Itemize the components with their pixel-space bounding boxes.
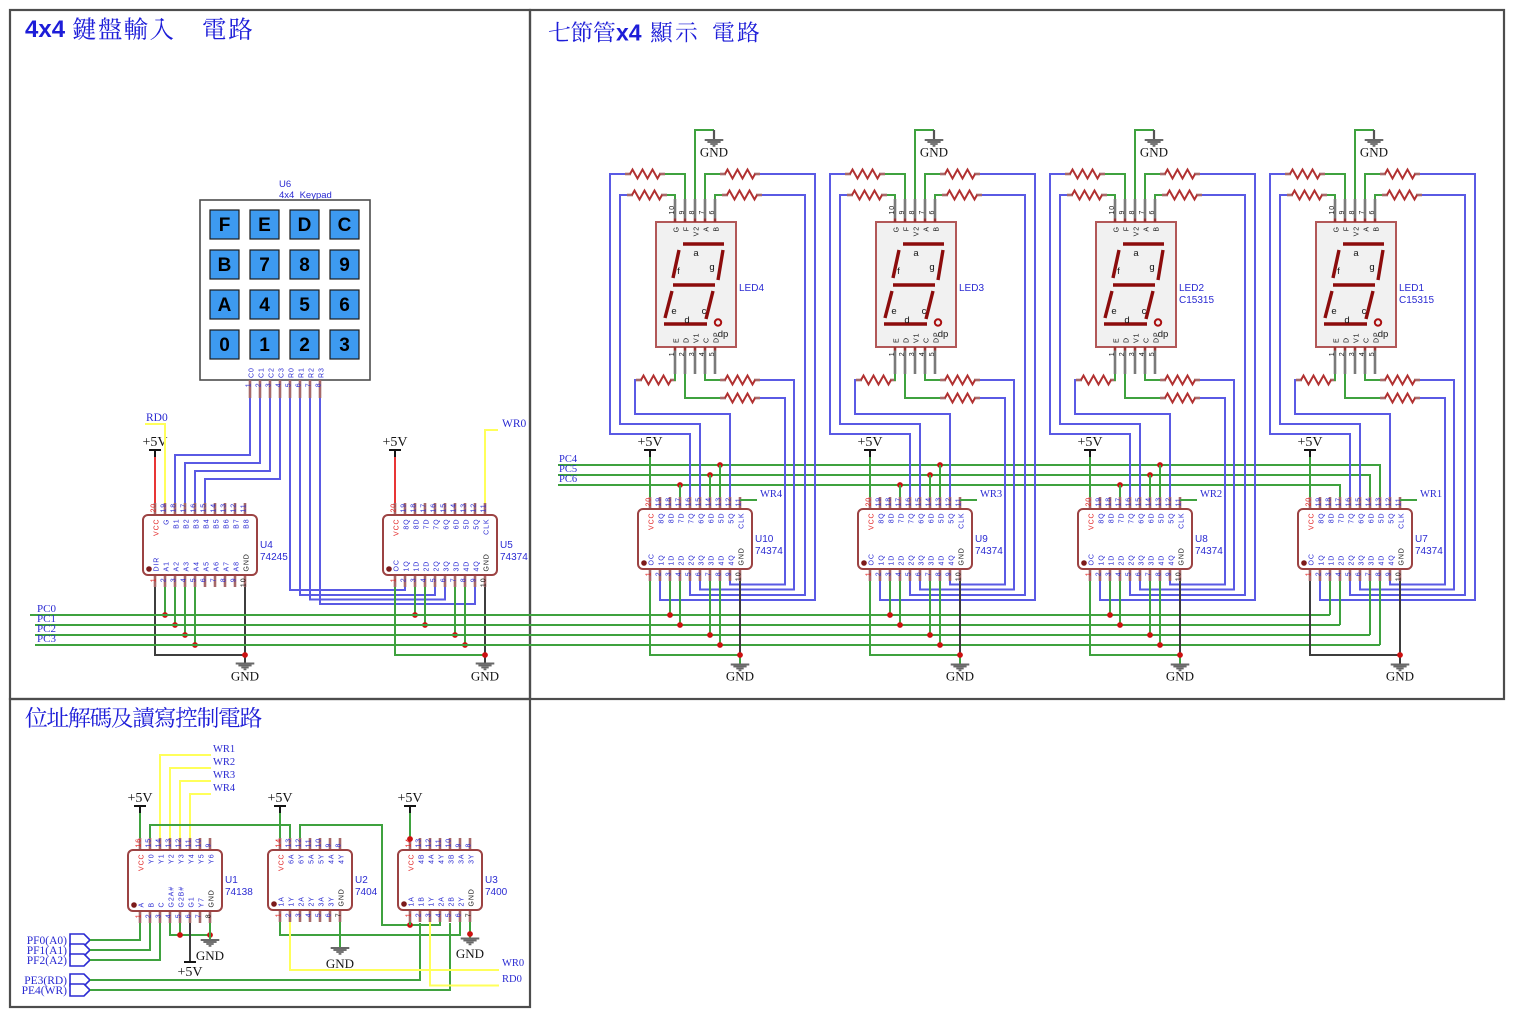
wire RD0 to U4 pin19 G	[145, 424, 165, 503]
svg-text:7: 7	[1366, 572, 1373, 577]
wire U7 5Q to R segE	[1295, 380, 1390, 497]
wire U10 5D to PC4	[719, 465, 721, 497]
node junction U8-7D/PC6	[1117, 482, 1123, 488]
svg-text:7: 7	[926, 572, 933, 577]
svg-text:17: 17	[676, 497, 683, 507]
wire U9 6D to PC5	[929, 475, 931, 497]
wire U8 3Q to R segC	[1140, 380, 1234, 590]
svg-text:1D: 1D	[1109, 555, 1116, 566]
svg-text:1: 1	[406, 913, 413, 918]
svg-text:f: f	[897, 266, 900, 277]
svg-text:U8: U8	[1195, 534, 1208, 545]
node junction U3 VCC	[407, 836, 413, 842]
svg-text:5: 5	[686, 572, 693, 577]
svg-text:10: 10	[1396, 572, 1403, 582]
svg-text:2Q: 2Q	[1129, 554, 1136, 565]
svg-text:1: 1	[246, 383, 253, 388]
svg-text:B1: B1	[174, 519, 181, 529]
svg-text:+5V: +5V	[382, 435, 407, 450]
svg-text:U6: U6	[279, 179, 291, 190]
svg-text:GND: GND	[231, 669, 259, 684]
svg-text:13: 13	[416, 838, 423, 848]
svg-text:U2: U2	[355, 875, 368, 886]
svg-text:14: 14	[1146, 497, 1153, 507]
node junction U9 ground	[957, 652, 963, 658]
svg-text:V1: V1	[1134, 333, 1141, 343]
ground above LED2	[1140, 140, 1168, 160]
svg-text:e: e	[1111, 306, 1116, 317]
svg-text:D: D	[298, 215, 312, 236]
svg-text:8: 8	[689, 210, 696, 215]
frame: keypad section box	[10, 10, 530, 699]
svg-text:G: G	[1334, 226, 1341, 232]
svg-text:A: A	[139, 902, 146, 908]
svg-text:7: 7	[1146, 572, 1153, 577]
svg-text:11: 11	[241, 503, 248, 512]
svg-text:16: 16	[191, 503, 198, 513]
svg-text:c: c	[922, 306, 927, 317]
7-segment display LED1	[1316, 222, 1396, 347]
svg-text:11: 11	[956, 497, 963, 506]
ground below U2	[326, 948, 354, 971]
svg-text:8Q: 8Q	[659, 513, 666, 524]
IC U2 7404	[268, 838, 378, 922]
wire LED4 F resistor to pin F	[665, 174, 685, 199]
wire U10 7Q to R segF	[610, 174, 690, 497]
power +5V for U10	[637, 435, 662, 497]
node junction U3 ground	[467, 931, 473, 937]
svg-text:1: 1	[669, 352, 676, 357]
ground stub LED1	[1373, 130, 1375, 140]
svg-text:5Q: 5Q	[729, 513, 736, 524]
svg-text:14: 14	[211, 503, 218, 513]
svg-text:GND: GND	[1386, 669, 1414, 684]
svg-text:7404: 7404	[355, 887, 378, 898]
svg-text:3A: 3A	[459, 854, 466, 864]
svg-text:14: 14	[1366, 497, 1373, 507]
LED4 segment middle	[673, 283, 715, 286]
svg-text:B4: B4	[204, 519, 211, 529]
svg-text:VCC: VCC	[139, 854, 146, 871]
svg-text:17: 17	[896, 497, 903, 507]
svg-text:7: 7	[1139, 210, 1146, 215]
svg-text:8: 8	[1156, 572, 1163, 577]
svg-text:7: 7	[306, 383, 313, 388]
LED1 segment d	[1324, 322, 1367, 325]
LED4 segment d	[664, 322, 707, 325]
wire U5 3D to PC2	[454, 587, 456, 635]
svg-text:C1: C1	[259, 367, 266, 378]
svg-text:GND: GND	[726, 669, 754, 684]
wire LED3 F resistor to pin F	[885, 174, 905, 199]
svg-text:6: 6	[339, 295, 350, 316]
resistor R LED3 seg A	[940, 170, 980, 179]
resistor R LED2 seg E	[1076, 376, 1116, 385]
svg-text:10: 10	[241, 578, 248, 588]
svg-text:6Q: 6Q	[444, 519, 451, 530]
wire U8 4D to PC3	[1159, 581, 1161, 645]
resistor R LED2 seg C	[1160, 376, 1200, 385]
svg-text:18: 18	[411, 503, 418, 513]
svg-text:1Q: 1Q	[879, 554, 886, 565]
LED2 segment g (upper right)	[1158, 250, 1163, 280]
svg-text:A: A	[924, 226, 931, 232]
LED4 segment a	[683, 242, 724, 245]
power +5V below U1 G1	[177, 923, 202, 980]
svg-text:d: d	[904, 315, 909, 326]
wire U3 GND pin down	[469, 922, 471, 938]
svg-text:GND: GND	[700, 145, 728, 160]
svg-text:C3: C3	[279, 367, 286, 378]
svg-text:V2: V2	[1134, 226, 1141, 236]
svg-text:17: 17	[181, 503, 188, 513]
resistor R LED2 seg G	[1067, 191, 1107, 200]
svg-text:10: 10	[1329, 205, 1336, 215]
svg-text:7: 7	[466, 913, 473, 918]
svg-text:A4: A4	[194, 561, 201, 571]
svg-text:2Q: 2Q	[434, 560, 441, 571]
wire U9 7Q to R segF	[830, 174, 910, 497]
wire U7 1Q to R segA	[1320, 174, 1475, 600]
wire U7 CLK to WR1	[1400, 499, 1417, 501]
IC U8 74374	[1078, 497, 1223, 581]
wire U9 4D to PC3	[939, 581, 941, 645]
svg-text:6: 6	[326, 913, 333, 918]
svg-text:DP: DP	[934, 331, 941, 343]
svg-text:12: 12	[726, 497, 733, 507]
wire U10 OC to ground	[650, 581, 740, 655]
node junction U8-4D/PC3	[1157, 642, 1163, 648]
wire U1 Y0 to U2 6A	[150, 825, 290, 838]
svg-text:1Q: 1Q	[404, 560, 411, 571]
ground below U10	[726, 665, 754, 684]
svg-text:74374: 74374	[500, 552, 528, 563]
svg-text:PC6: PC6	[559, 474, 577, 485]
svg-text:4: 4	[181, 578, 188, 583]
connector PF1(A1)	[27, 944, 90, 957]
wire LED3 D pin to resistor	[905, 374, 940, 398]
LED4 decimal point dp	[715, 319, 721, 325]
node junction U9-7D/PC6	[897, 482, 903, 488]
wire U10 3Q to R segC	[700, 380, 794, 590]
svg-text:g: g	[1149, 262, 1154, 273]
wire U8 4Q to R segD	[1170, 398, 1225, 585]
svg-text:5: 5	[299, 295, 310, 316]
svg-text:3: 3	[426, 913, 433, 918]
LED4 segment e	[665, 291, 672, 318]
svg-text:B: B	[934, 226, 941, 232]
wire LED1 F resistor to pin F	[1325, 174, 1345, 199]
LED1 segment f	[1333, 250, 1339, 278]
svg-text:V2: V2	[694, 226, 701, 236]
node junction U4-A3/PC2	[182, 632, 188, 638]
svg-text:F: F	[684, 226, 691, 231]
wire U8 5Q to R segE	[1075, 380, 1170, 497]
svg-text:5: 5	[929, 352, 936, 357]
svg-text:4: 4	[699, 352, 706, 357]
svg-text:c: c	[702, 306, 707, 317]
svg-text:6: 6	[916, 572, 923, 577]
node junction U10-4D/PC3	[717, 642, 723, 648]
svg-text:GND: GND	[244, 553, 251, 571]
7-segment display LED4	[656, 222, 736, 347]
svg-text:4Y: 4Y	[339, 854, 346, 864]
IC U10 74374	[638, 497, 783, 581]
svg-text:18: 18	[886, 497, 893, 507]
svg-text:1D: 1D	[1329, 555, 1336, 566]
svg-text:12: 12	[1386, 497, 1393, 507]
svg-text:2A: 2A	[299, 896, 306, 906]
svg-text:7: 7	[211, 578, 218, 583]
resistor R LED1 seg A	[1380, 170, 1420, 179]
svg-text:Y2: Y2	[169, 854, 176, 864]
wire U4 A2 to PC1	[174, 587, 176, 625]
svg-text:8: 8	[716, 572, 723, 577]
svg-text:WR4: WR4	[760, 489, 783, 500]
svg-text:4Q: 4Q	[1169, 554, 1176, 565]
ground below U9	[946, 665, 974, 684]
svg-text:18: 18	[1106, 497, 1113, 507]
svg-text:0: 0	[219, 335, 230, 356]
wire WR0 to U5 pin11 CLK	[485, 430, 498, 503]
svg-text:d: d	[1344, 315, 1349, 326]
svg-text:12: 12	[231, 503, 238, 513]
svg-text:1: 1	[259, 335, 270, 356]
wire U7 OC to ground	[1310, 581, 1400, 655]
svg-text:Y3: Y3	[179, 854, 186, 864]
svg-text:R3: R3	[319, 367, 326, 378]
svg-text:1: 1	[1086, 572, 1093, 577]
wire U8 3D to PC2	[1149, 581, 1151, 635]
svg-text:4: 4	[919, 352, 926, 357]
wire U8 2Q to R segB	[1130, 195, 1245, 595]
LED3 segment e	[885, 291, 892, 318]
wire U10 2Q to R segB	[690, 195, 805, 595]
svg-text:R0: R0	[289, 367, 296, 378]
svg-text:5: 5	[176, 914, 183, 919]
wire PE4(WR) to U3 2B	[90, 923, 450, 990]
wire U9 GND pin down	[959, 581, 961, 655]
wire LED2 D pin to resistor	[1125, 374, 1160, 398]
wire U5 2D to PC1	[424, 587, 426, 625]
LED3 segment f	[893, 250, 899, 278]
svg-text:CLK: CLK	[739, 513, 746, 529]
svg-text:16: 16	[431, 503, 438, 513]
resistor R LED1 seg B	[1382, 191, 1422, 200]
svg-text:C: C	[704, 337, 711, 343]
wire LED1 A pin to resistor	[1365, 174, 1380, 199]
resistor R LED2 seg D	[1160, 394, 1200, 403]
svg-text:3D: 3D	[1149, 555, 1156, 566]
resistor R LED4 seg F	[625, 170, 665, 179]
svg-text:6D: 6D	[709, 513, 716, 524]
wire U7 2D to PC1	[1339, 581, 1341, 625]
svg-text:A2: A2	[174, 561, 181, 571]
svg-text:74245: 74245	[260, 552, 288, 563]
wire LED3 C pin to resistor	[925, 374, 940, 380]
svg-text:8D: 8D	[1109, 513, 1116, 524]
svg-text:C: C	[924, 337, 931, 343]
wire LED2 C pin to resistor	[1145, 374, 1160, 380]
svg-text:7: 7	[259, 255, 270, 276]
svg-text:5D: 5D	[939, 513, 946, 524]
svg-text:G2A#: G2A#	[169, 886, 176, 908]
svg-text:OC: OC	[649, 553, 656, 565]
wire LED2 E resistor to pin E	[1115, 374, 1116, 380]
svg-text:VCC: VCC	[394, 519, 401, 536]
svg-text:20: 20	[646, 497, 653, 507]
svg-text:1: 1	[151, 578, 158, 583]
svg-text:4D: 4D	[464, 561, 471, 572]
wire U10 ground stub	[739, 655, 741, 665]
frame: display section box	[530, 10, 1504, 699]
wire keypad C3 to U4 B4	[205, 398, 280, 503]
svg-text:A: A	[704, 226, 711, 232]
LED2 decimal point dp	[1155, 319, 1161, 325]
wire U8 5D to PC4	[1159, 465, 1161, 497]
resistor R LED3 seg G	[847, 191, 887, 200]
wire U8 OC to ground	[1090, 581, 1180, 655]
wire U8 7Q to R segF	[1050, 174, 1130, 497]
svg-text:Y0: Y0	[149, 854, 156, 864]
svg-text:U7: U7	[1415, 534, 1428, 545]
svg-text:13: 13	[1156, 497, 1163, 507]
svg-text:4A: 4A	[429, 854, 436, 864]
LED2 segment middle	[1113, 283, 1155, 286]
node junction U8-6D/PC5	[1147, 472, 1153, 478]
svg-text:f: f	[677, 266, 680, 277]
svg-text:4D: 4D	[1159, 555, 1166, 566]
svg-text:7Q: 7Q	[909, 513, 916, 524]
node junction U9-3D/PC2	[927, 632, 933, 638]
svg-text:A3: A3	[184, 561, 191, 571]
svg-text:5: 5	[906, 572, 913, 577]
svg-text:11: 11	[481, 503, 488, 512]
svg-text:f: f	[1337, 266, 1340, 277]
svg-text:8: 8	[299, 255, 310, 276]
power +5V for U5	[382, 435, 407, 503]
svg-text:C: C	[1364, 337, 1371, 343]
IC U3 7400	[398, 838, 508, 922]
svg-text:12: 12	[426, 838, 433, 848]
wire U9 3Q to R segC	[920, 380, 1014, 590]
svg-text:3: 3	[411, 578, 418, 583]
wire U9 7D to PC6	[899, 485, 901, 497]
svg-text:20: 20	[1306, 497, 1313, 507]
svg-text:7D: 7D	[1339, 513, 1346, 524]
wire U10 4Q to R segD	[730, 398, 785, 585]
connector PF2(A2)	[27, 954, 90, 967]
power +5V for U2	[267, 791, 292, 838]
LED1 segment g (upper right)	[1378, 250, 1383, 280]
ground below U1	[196, 940, 224, 963]
svg-text:9: 9	[1386, 572, 1393, 577]
svg-text:V1: V1	[694, 333, 701, 343]
wire LED2 A pin to resistor	[1145, 174, 1160, 199]
svg-text:1Q: 1Q	[659, 554, 666, 565]
IC U7 74374	[1298, 497, 1443, 581]
svg-text:RD0: RD0	[146, 412, 168, 424]
svg-text:6A: 6A	[289, 854, 296, 864]
svg-text:3: 3	[296, 913, 303, 918]
svg-text:V1: V1	[914, 333, 921, 343]
svg-text:6D: 6D	[1369, 513, 1376, 524]
svg-text:B2: B2	[184, 519, 191, 529]
wire LED4 D pin to resistor	[685, 374, 720, 398]
wire PF2(A2) to U1 C	[90, 923, 160, 960]
svg-text:5A: 5A	[309, 854, 316, 864]
svg-text:a: a	[913, 248, 919, 259]
LED1 segment e	[1325, 291, 1332, 318]
svg-text:9: 9	[339, 255, 350, 276]
svg-text:17: 17	[1116, 497, 1123, 507]
ground stub LED3	[933, 130, 935, 140]
svg-text:2: 2	[256, 383, 263, 388]
wire LED3 A pin to resistor	[925, 174, 940, 199]
svg-text:C2: C2	[269, 367, 276, 378]
svg-text:8: 8	[1129, 210, 1136, 215]
ground below U3	[456, 939, 484, 962]
svg-text:2D: 2D	[899, 555, 906, 566]
7-segment display LED3	[876, 222, 956, 347]
svg-text:5: 5	[191, 578, 198, 583]
wire U1 G2B# to ground	[179, 923, 181, 935]
svg-text:4Y: 4Y	[439, 854, 446, 864]
wire LED4 E resistor to pin E	[675, 374, 676, 380]
svg-text:F: F	[1124, 226, 1131, 231]
svg-text:D: D	[904, 337, 911, 343]
svg-text:8: 8	[221, 578, 228, 583]
svg-text:4D: 4D	[1379, 555, 1386, 566]
wire U7 GND pin down	[1399, 581, 1401, 655]
wire LED3 G resistor to pin G	[887, 195, 895, 199]
LED3 pins	[889, 199, 941, 374]
svg-text:9: 9	[726, 572, 733, 577]
svg-text:8D: 8D	[889, 513, 896, 524]
svg-text:VCC: VCC	[1089, 513, 1096, 530]
svg-text:7D: 7D	[424, 519, 431, 530]
svg-text:15: 15	[201, 503, 208, 513]
svg-text:PE4(WR): PE4(WR)	[22, 985, 68, 997]
svg-text:8D: 8D	[1329, 513, 1336, 524]
svg-text:1: 1	[1329, 352, 1336, 357]
wire U9 OC to ground	[870, 581, 960, 655]
svg-text:5D: 5D	[1379, 513, 1386, 524]
wire U1 Y3 to WR3	[180, 781, 211, 838]
svg-text:7: 7	[1359, 210, 1366, 215]
svg-text:PF2(A2): PF2(A2)	[27, 955, 67, 967]
svg-text:18: 18	[171, 503, 178, 513]
LED1 segment a	[1343, 242, 1384, 245]
svg-text:GND: GND	[1140, 145, 1168, 160]
wire U10 1Q to R segA	[660, 174, 815, 600]
svg-text:74374: 74374	[1415, 546, 1443, 557]
frame: decoder section box	[10, 699, 530, 1007]
svg-text:12: 12	[946, 497, 953, 507]
svg-text:8: 8	[316, 383, 323, 388]
node junction U5-4D/PC3	[462, 642, 468, 648]
svg-text:U9: U9	[975, 534, 988, 545]
svg-text:3D: 3D	[454, 561, 461, 572]
wire U9 3D to PC2	[929, 581, 931, 635]
node junction U4-A1/PC0	[162, 612, 168, 618]
svg-text:U5: U5	[500, 540, 513, 551]
LED3 segment g (upper right)	[938, 250, 943, 280]
node junction U7 ground	[1397, 652, 1403, 658]
svg-text:20: 20	[151, 503, 158, 513]
svg-text:PC3: PC3	[37, 633, 56, 645]
wire U8 ground stub	[1179, 655, 1181, 665]
